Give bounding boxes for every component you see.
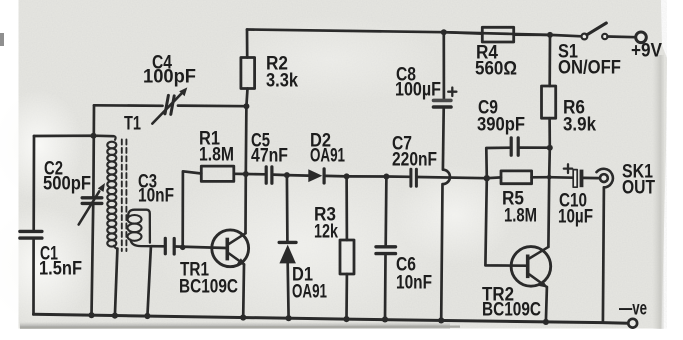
junction C5 / D1 <box>284 172 290 178</box>
wire C10 left <box>549 176 573 179</box>
svg-text:1.5nF: 1.5nF <box>39 259 82 280</box>
junction R1 / TR1 base <box>180 245 186 251</box>
inductor T1 secondary <box>128 215 142 241</box>
C10 plus <box>564 164 572 173</box>
capacitor C7 <box>411 169 417 186</box>
capacitor C2 <box>82 198 102 204</box>
svg-text:390pF: 390pF <box>477 115 525 136</box>
wire R4 right <box>514 33 550 36</box>
capacitor C1 <box>20 231 42 238</box>
junction rail / TR2 emitter <box>543 319 549 325</box>
capacitor C6 <box>376 247 396 254</box>
svg-text:10nF: 10nF <box>396 273 432 294</box>
svg-text:1.8M: 1.8M <box>504 206 537 227</box>
capacitor C3 <box>165 238 174 254</box>
wire R4 left <box>444 32 483 34</box>
junction tank top / C2 <box>91 133 97 139</box>
junction top rail / R6 <box>547 32 553 38</box>
left margin tick <box>0 33 4 46</box>
wire top rail <box>247 30 582 37</box>
svg-text:T1: T1 <box>124 114 141 135</box>
wire T1 primary to rail <box>115 249 118 316</box>
resistor R2 <box>241 58 255 89</box>
junction TR1 collector node <box>243 171 249 177</box>
junction rail / T1 secondary <box>144 313 150 319</box>
wire R3 branch <box>345 176 348 240</box>
svg-text:ON/OFF: ON/OFF <box>558 58 621 79</box>
wire signal to C6 node <box>347 175 409 178</box>
wire R5 left <box>487 176 501 180</box>
wire collector node to C5 <box>246 173 265 176</box>
wire jack to rail <box>603 187 604 322</box>
bottom rail <box>34 314 629 323</box>
switch S1 <box>582 34 588 40</box>
wire C6 branch <box>384 177 387 246</box>
wire TR2 base column <box>485 178 526 266</box>
wire T1 secondary to rail <box>147 246 151 316</box>
wire C2 branch top <box>92 105 95 196</box>
wire R6 column <box>548 35 551 86</box>
svg-text:10nF: 10nF <box>138 186 174 207</box>
wire R2 bottom <box>246 89 247 107</box>
svg-text:3.3k: 3.3k <box>266 71 298 92</box>
svg-text:100pF: 100pF <box>143 67 196 88</box>
junction rail / TR1 emitter <box>240 314 246 320</box>
wire C7 to TR2 base node <box>418 177 487 178</box>
capacitor C4 <box>165 95 174 114</box>
T1 core <box>122 140 127 252</box>
svg-text:3.9k: 3.9k <box>563 115 596 136</box>
wire C1 branch top <box>32 136 35 230</box>
wire tank top <box>34 134 114 137</box>
wire C5 to D2 <box>274 175 309 176</box>
wire R1 left leg <box>183 171 202 247</box>
resistor R4 <box>482 27 513 42</box>
svg-text:12k: 12k <box>314 222 338 243</box>
junction C4 line / R2 <box>243 103 249 109</box>
resistor R6 <box>542 86 556 118</box>
capacitor C8 <box>434 99 451 103</box>
junction rail / T1 primary <box>112 313 118 319</box>
junction rail / C6 <box>382 316 388 322</box>
transistor TR2 <box>511 247 551 287</box>
svg-text:100µF: 100µF <box>395 80 441 101</box>
C8 plus <box>448 88 456 97</box>
wire C9 left leg <box>486 148 509 179</box>
wire C2 to rail <box>92 205 94 316</box>
capacitor C5 <box>266 167 272 184</box>
wire C8 bottom with hop <box>441 109 450 321</box>
junction R5 / C10 node <box>547 175 552 180</box>
svg-text:560Ω: 560Ω <box>475 59 517 80</box>
junction rail / D1 <box>286 315 292 321</box>
diode D1 <box>279 241 296 244</box>
jack SK1 <box>600 174 608 182</box>
svg-text:220nF: 220nF <box>392 150 437 171</box>
wire D1 branch <box>286 175 289 241</box>
wire C8 branch top <box>442 32 445 98</box>
svg-text:OUT: OUT <box>622 178 655 199</box>
junction rail / C8 <box>438 317 444 323</box>
junction TR2 base node <box>484 175 490 181</box>
wire D2 to R3 node <box>326 175 347 178</box>
wire C3 to TR1 base <box>176 247 226 249</box>
wire R1 right <box>234 172 246 175</box>
svg-text:OA91: OA91 <box>310 146 345 167</box>
wire R2 top <box>246 30 249 58</box>
wire T1 secondary hook <box>128 210 151 247</box>
junction C9 / R6 column <box>547 145 553 151</box>
svg-text:1.8M: 1.8M <box>199 145 234 166</box>
svg-text:BC109C: BC109C <box>482 300 541 321</box>
terminal -ve <box>628 319 637 328</box>
wire C1 to rail <box>32 240 35 314</box>
junction top rail / C8 <box>441 29 447 35</box>
diode D2 <box>308 169 322 182</box>
junction rail / R3 <box>343 316 349 322</box>
svg-text:47nF: 47nF <box>251 146 288 167</box>
capacitor C10 <box>573 170 577 188</box>
inductor T1 primary <box>107 136 117 248</box>
capacitor C9 <box>511 138 518 156</box>
svg-text:10µF: 10µF <box>558 207 593 228</box>
wire C4 line <box>94 104 246 108</box>
svg-text:BC109C: BC109C <box>179 277 238 298</box>
wire collector column TR1 <box>244 106 248 233</box>
transistor TR1 <box>212 230 249 267</box>
wire TR1 emitter to rail <box>242 264 246 317</box>
wire to C3 <box>151 245 163 248</box>
terminal +9V <box>636 32 647 43</box>
svg-text:OA91: OA91 <box>292 282 327 303</box>
junction rail / C2 <box>88 312 94 318</box>
junction D2 / R3 <box>344 173 350 179</box>
resistor R1 <box>201 166 234 181</box>
resistor R5 <box>501 171 532 184</box>
svg-text:—ve: —ve <box>619 299 647 320</box>
svg-text:+9V: +9V <box>631 41 662 62</box>
svg-text:500pF: 500pF <box>43 174 91 195</box>
junction signal / C6 <box>383 174 389 180</box>
resistor R3 <box>340 240 354 274</box>
